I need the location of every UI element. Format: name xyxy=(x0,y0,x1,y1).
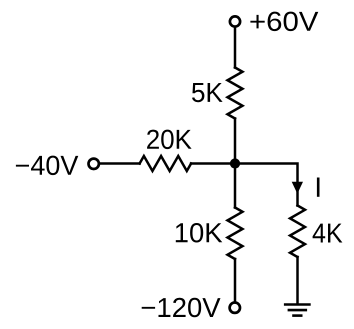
wire 10K to bottom terminal xyxy=(234,259,237,301)
terminal +60V xyxy=(230,16,240,26)
wire node A to 10K xyxy=(234,164,237,208)
wire left terminal to 20K xyxy=(100,162,139,165)
node A junction dot xyxy=(230,158,240,168)
wire top terminal to 5K xyxy=(234,28,237,68)
label 4K xyxy=(313,224,343,243)
wire node A to corner and down to 4K xyxy=(235,164,298,206)
label 5K xyxy=(192,83,223,102)
current arrow I xyxy=(292,182,303,194)
label 20K xyxy=(147,130,192,150)
label 10K xyxy=(176,223,223,243)
resistor 4K xyxy=(290,206,305,258)
label +60V xyxy=(250,12,318,32)
resistor 10K xyxy=(228,208,243,260)
wire 5K to node A xyxy=(234,119,237,164)
wire 4K to ground xyxy=(296,257,299,303)
label -120V xyxy=(142,298,221,318)
ground xyxy=(284,305,311,316)
label -40V xyxy=(16,156,78,176)
resistor 5K xyxy=(228,68,243,119)
terminal -120V xyxy=(230,303,240,313)
wire 20K to node A xyxy=(191,162,235,165)
terminal -40V xyxy=(89,159,99,169)
label I xyxy=(317,178,320,197)
resistor 20K xyxy=(140,156,192,171)
